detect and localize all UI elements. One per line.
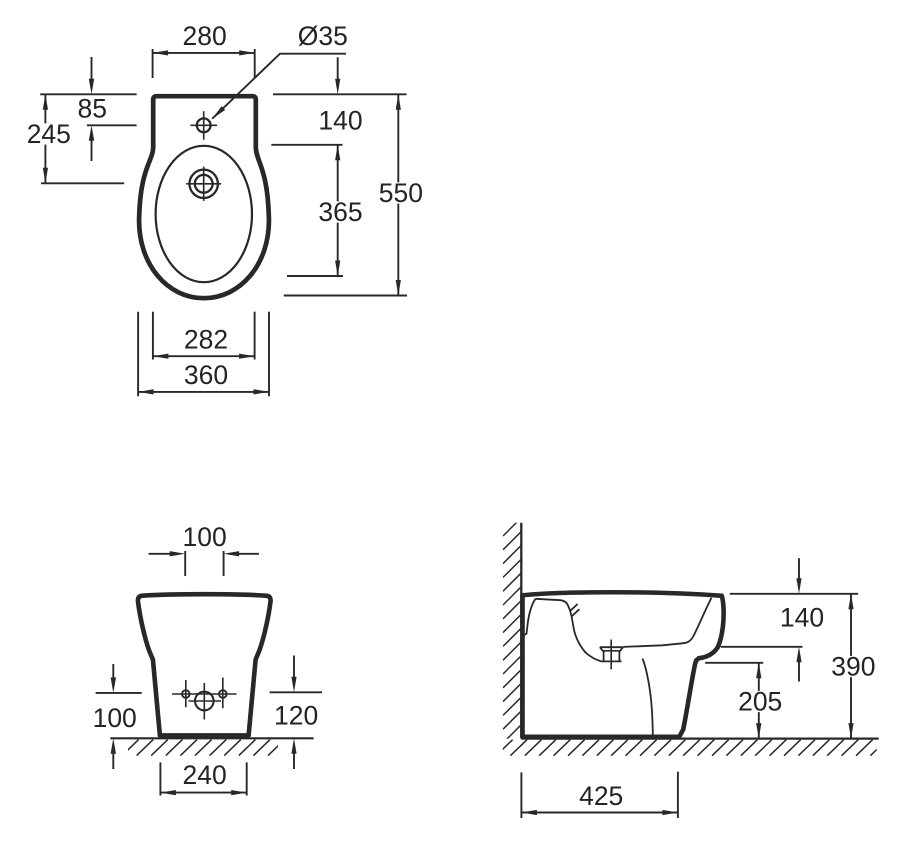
arrow up to ground (120) <box>293 751 295 769</box>
extension line drain level (245) <box>41 182 124 184</box>
dimension line 425 with arrows <box>521 812 678 814</box>
back rim inner edge right and bowl back wall <box>536 599 601 661</box>
svg-text:245: 245 <box>27 119 71 149</box>
drain circle (front view) <box>195 692 214 711</box>
svg-text:85: 85 <box>78 94 107 124</box>
dimension line 245 with arrows <box>44 94 46 183</box>
svg-text:205: 205 <box>738 687 782 717</box>
extension line right for 280 <box>254 49 256 78</box>
extension line left for 240 <box>159 762 161 795</box>
extension line lip level (205) <box>705 662 763 664</box>
back rim inner edge left <box>524 599 536 636</box>
svg-text:140: 140 <box>780 603 824 633</box>
dimension line 282 with arrows <box>153 355 255 357</box>
svg-text:425: 425 <box>579 781 623 811</box>
extension line bottom-right (550) <box>284 295 407 297</box>
drain trap outline (side view) <box>600 647 623 661</box>
arrow down to top line (85) <box>91 57 93 82</box>
extension line top-left (body top) <box>40 93 136 95</box>
label 365 <box>316 201 364 222</box>
extension line wall for 425 <box>520 772 522 818</box>
floor hatching (front view) <box>122 740 285 756</box>
arrow down to top line (140) <box>337 57 339 82</box>
arrow up to bowl floor line (140 side) <box>798 660 800 682</box>
label 390 <box>829 656 877 677</box>
break mark ticks on rim <box>570 604 578 611</box>
arrow down to top line (140 side) <box>798 558 800 581</box>
floor line (side view) <box>521 737 878 739</box>
arrow up to faucet line (85) <box>91 138 93 162</box>
extension line left for 280 <box>152 49 154 78</box>
drain centerline cross <box>186 183 221 185</box>
svg-text:360: 360 <box>184 360 228 390</box>
ground line (front view) <box>110 737 313 739</box>
extension line faucet level right (120) <box>270 691 322 693</box>
faucet hole circle (top view) <box>197 118 211 132</box>
drain centerline horizontal tick (side view) <box>604 650 620 652</box>
dimension line 390 with arrows <box>850 594 852 739</box>
extension line top-right (body top) <box>273 93 407 95</box>
extension line rim level (140) <box>271 144 342 146</box>
front lip inner edge <box>623 598 711 647</box>
extension line left for 360 <box>137 312 139 397</box>
arrow down to faucet line (120) <box>293 656 295 680</box>
svg-text:280: 280 <box>182 21 226 51</box>
svg-text:365: 365 <box>318 197 362 227</box>
extension line left for 282 <box>152 312 154 360</box>
bidet side view body outline <box>523 592 724 737</box>
svg-text:550: 550 <box>379 178 423 208</box>
dimension line 280 with arrows <box>153 52 255 54</box>
arrow down to faucet line (100) <box>112 664 114 680</box>
drain inner circle (top view) <box>195 175 213 193</box>
svg-text:120: 120 <box>274 700 318 730</box>
bidet top view outer body outline <box>139 96 269 298</box>
svg-text:Ø35: Ø35 <box>298 21 348 51</box>
extension line right for 282 <box>254 312 256 360</box>
svg-text:240: 240 <box>182 760 226 790</box>
svg-text:100: 100 <box>93 703 137 733</box>
svg-text:100: 100 <box>182 522 226 552</box>
drain centerline horizontal (front view) <box>189 700 222 702</box>
dimension line 550 with arrows <box>397 94 399 295</box>
extension line faucet level left (100) <box>96 692 142 694</box>
wall hatching <box>503 518 521 743</box>
drain centerline vertical (side view) <box>610 640 612 670</box>
dimension line 240 with arrows <box>160 792 246 794</box>
bidet top view inner bowl oval <box>156 146 252 282</box>
extension line left for 100 top <box>184 551 186 576</box>
svg-text:390: 390 <box>831 652 875 682</box>
faucet hole centerline cross <box>190 124 217 126</box>
label 245 <box>25 123 73 144</box>
dimension line 205 with arrows <box>758 663 760 739</box>
faucet small circle right (front view) <box>219 690 227 698</box>
svg-text:140: 140 <box>318 105 362 135</box>
extension line faucet level (85) <box>87 124 137 126</box>
dimension line 365 with arrows <box>337 145 339 276</box>
extension line foot front for 425 <box>677 772 679 818</box>
dimension line 360 with arrows <box>138 391 269 393</box>
fixture centerline horizontal (front view) <box>172 693 237 695</box>
bidet front view body outline <box>138 594 271 735</box>
extension line right for 360 <box>268 312 270 397</box>
faucet small circle left (front view) <box>182 690 190 698</box>
right hole centerline vertical <box>222 678 224 709</box>
extension line bowl floor level (140 side) <box>721 646 803 648</box>
svg-text:282: 282 <box>184 324 228 354</box>
wall line (side view) <box>520 523 522 739</box>
extension line right for 240 <box>246 762 248 795</box>
extension line bowl end level (365) <box>287 275 343 277</box>
floor hatching (side view) <box>496 740 887 756</box>
extension line right for 100 top <box>223 551 225 576</box>
foot back inner edge <box>643 659 653 736</box>
dimension 100 arrows outside <box>149 553 171 555</box>
extension line body top right (side) <box>730 593 858 595</box>
label 550 <box>377 182 425 203</box>
leader line for hole diameter <box>212 54 346 119</box>
drain outer circle (top view) <box>190 170 218 198</box>
drain centerline vertical <box>203 683 205 720</box>
left hole centerline vertical <box>185 680 187 707</box>
label 205 <box>736 691 784 712</box>
arrow up to ground (100) <box>112 751 114 769</box>
